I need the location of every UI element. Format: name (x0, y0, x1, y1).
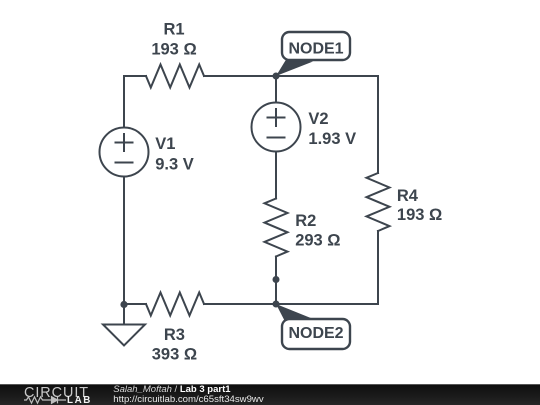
svg-text:293 Ω: 293 Ω (295, 232, 340, 250)
V1 minus sign (116, 162, 133, 164)
V2 minus sign (268, 137, 285, 139)
voltage source V1 (100, 128, 149, 177)
wire bottom (NODE2 to bottom-right corner) (276, 303, 378, 305)
node NODE1 flag box (282, 32, 350, 60)
footer bar (0, 384, 540, 405)
wire R2 bottom to junction (275, 257, 277, 280)
wire R3 right to node NODE2 (204, 303, 276, 305)
svg-text:9.3 V: 9.3 V (155, 156, 194, 174)
junction dot NODE2 (273, 301, 280, 308)
wire V2 bottom to R2 top (275, 152, 277, 199)
svg-text:R4: R4 (397, 187, 419, 205)
CircuitLab logo diode symbol (52, 397, 67, 404)
svg-text:V2: V2 (308, 110, 328, 128)
svg-text:http://circuitlab.com/c65sft34: http://circuitlab.com/c65sft34sw9wv (113, 394, 264, 405)
wire NODE1 to top-right corner (276, 75, 378, 77)
svg-text:NODE1: NODE1 (288, 40, 343, 57)
ground wire stub (123, 304, 125, 325)
svg-text:193 Ω: 193 Ω (397, 206, 442, 224)
node NODE2 flag pointer (276, 304, 312, 322)
node NODE2 flag box (282, 319, 350, 349)
svg-text:1.93 V: 1.93 V (308, 130, 356, 148)
ground (103, 325, 145, 346)
svg-text:R3: R3 (164, 326, 185, 344)
wire right rail bottom (R4 to bottom-right corner) (377, 231, 379, 304)
svg-text:R2: R2 (295, 212, 316, 230)
svg-text:V1: V1 (155, 135, 175, 153)
resistor R4 (367, 173, 390, 231)
wire V1 bottom to bottom-left junction (123, 177, 125, 305)
wire R1 right to node NODE1 (204, 75, 276, 77)
svg-text:193 Ω: 193 Ω (151, 40, 196, 58)
junction dot mid (R2 bottom) (273, 276, 280, 283)
V1 plus sign (116, 134, 133, 151)
wire bottom-left junction to R3 left (124, 303, 146, 305)
svg-text:R1: R1 (163, 21, 184, 39)
resistor R1 (146, 65, 204, 88)
CircuitLab logo resistor squiggle (24, 397, 51, 403)
wire node NODE1 to V2 top (275, 76, 277, 103)
junction dot bottom-left (120, 301, 127, 308)
svg-text:NODE2: NODE2 (288, 325, 343, 342)
V2 plus sign (268, 109, 285, 126)
wire junction to node NODE2 (275, 280, 277, 305)
wire right rail top (corner to R4) (377, 76, 379, 173)
wire V1 top to R1 left (left rail top) (124, 76, 146, 128)
node NODE1 flag pointer (276, 58, 313, 76)
voltage source V2 (252, 103, 301, 152)
resistor R2 (265, 199, 288, 257)
svg-text:393 Ω: 393 Ω (152, 346, 197, 364)
resistor R3 (146, 293, 204, 316)
junction dot NODE1 (273, 73, 280, 80)
svg-text:LAB: LAB (67, 395, 92, 405)
